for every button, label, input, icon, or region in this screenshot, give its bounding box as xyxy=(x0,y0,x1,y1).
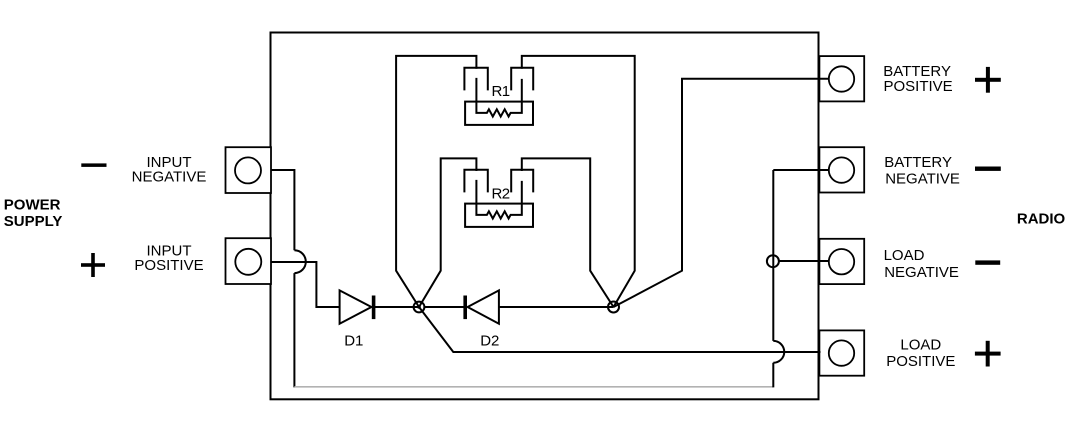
plus symbol (input positive polarity) xyxy=(81,253,105,277)
plus symbol (load positive polarity) xyxy=(975,341,1001,367)
wire D1 cathode to node A xyxy=(374,306,419,308)
node A junction circle (D1-D2 junction) xyxy=(414,302,425,313)
svg-text:NEGATIVE: NEGATIVE xyxy=(885,171,960,188)
wire input positive to D1 xyxy=(271,262,340,307)
wire battery negative stub xyxy=(773,169,829,171)
wire R1 right lead to node B xyxy=(522,56,635,307)
wire hop over input positive wire xyxy=(294,250,305,273)
wire negative bottom bus (gray) xyxy=(294,386,773,388)
wire R2 left lead to node A xyxy=(419,158,476,307)
diode D2 xyxy=(465,290,499,349)
svg-text:R1: R1 xyxy=(492,83,510,100)
svg-text:BATTERY: BATTERY xyxy=(884,154,952,171)
terminal BATTERY NEGATIVE xyxy=(819,147,864,192)
svg-text:R2: R2 xyxy=(492,186,510,203)
svg-text:SUPPLY: SUPPLY xyxy=(4,213,63,230)
minus symbol (battery negative polarity) xyxy=(975,167,1001,171)
svg-text:D1: D1 xyxy=(344,333,363,350)
svg-text:RADIO: RADIO xyxy=(1017,210,1066,227)
minus symbol (input negative polarity) xyxy=(81,163,106,167)
svg-text:POSITIVE: POSITIVE xyxy=(134,257,203,274)
terminal BATTERY POSITIVE xyxy=(819,56,864,101)
module outline box xyxy=(271,33,819,400)
wire R2 right lead to node B xyxy=(522,158,614,307)
terminal LOAD NEGATIVE xyxy=(819,239,864,284)
terminal INPUT POSITIVE xyxy=(226,238,272,284)
svg-text:POSITIVE: POSITIVE xyxy=(886,353,955,370)
svg-text:NEGATIVE: NEGATIVE xyxy=(884,264,959,281)
wire negative riser to battery negative xyxy=(772,170,774,387)
wire D2 anode to node B xyxy=(499,306,614,308)
resistor R1 plug-in assembly xyxy=(464,68,533,125)
wire input negative to bottom bus xyxy=(271,170,294,387)
node A center dot xyxy=(417,305,421,309)
svg-text:POSITIVE: POSITIVE xyxy=(884,78,953,95)
svg-text:NEGATIVE: NEGATIVE xyxy=(132,169,207,186)
diode D1 xyxy=(340,290,374,349)
wire node A to D2 cathode xyxy=(425,306,466,308)
node B junction circle (right junction) xyxy=(608,302,619,313)
wire load negative stub xyxy=(779,260,830,262)
terminal LOAD POSITIVE xyxy=(819,330,864,375)
wire node A to load positive xyxy=(419,307,821,352)
svg-text:D2: D2 xyxy=(480,333,499,350)
wire node B to battery positive xyxy=(614,79,830,307)
svg-text:LOAD: LOAD xyxy=(884,247,925,264)
resistor R2 plug-in assembly xyxy=(464,170,533,227)
wire R1 left lead to node A xyxy=(396,56,476,307)
wire hop over load positive wire xyxy=(773,341,784,363)
minus symbol (load negative polarity) xyxy=(975,260,1000,264)
node C junction circle (load negative tap) xyxy=(767,255,779,267)
terminal INPUT NEGATIVE xyxy=(226,147,272,193)
plus symbol (battery positive polarity) xyxy=(975,67,1001,93)
svg-text:LOAD: LOAD xyxy=(900,337,941,354)
svg-text:POWER: POWER xyxy=(4,197,61,214)
